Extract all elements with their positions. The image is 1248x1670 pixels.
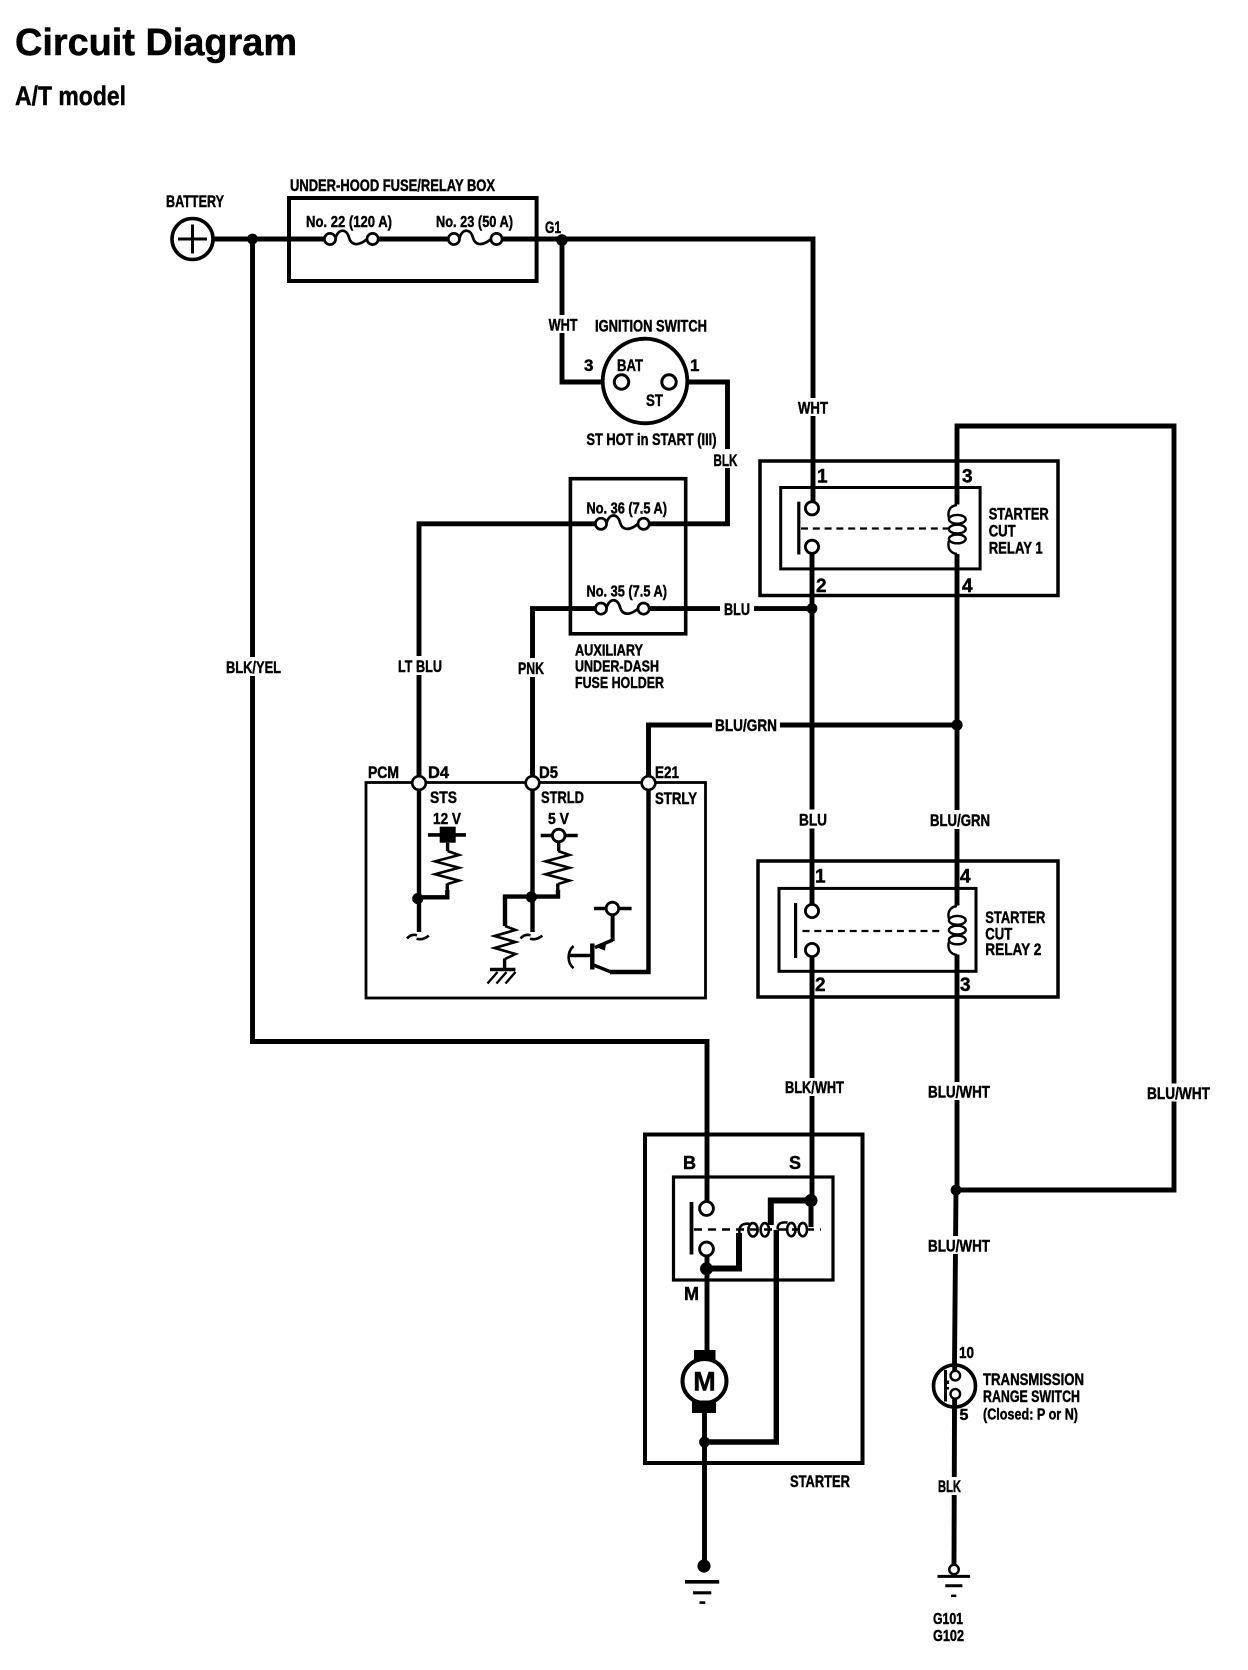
svg-text:3: 3 — [584, 356, 593, 375]
svg-text:STARTER: STARTER — [985, 909, 1045, 927]
svg-text:BLU/WHT: BLU/WHT — [1147, 1084, 1210, 1103]
svg-text:BLK/YEL: BLK/YEL — [226, 658, 281, 677]
svg-text:BLK: BLK — [714, 451, 738, 470]
svg-text:G101: G101 — [933, 1611, 963, 1628]
svg-text:A/T model: A/T model — [15, 81, 126, 111]
svg-text:M: M — [684, 1284, 699, 1304]
svg-text:10: 10 — [959, 1345, 974, 1362]
svg-text:Circuit Diagram: Circuit Diagram — [15, 22, 297, 64]
svg-text:4: 4 — [962, 576, 973, 597]
svg-text:BAT: BAT — [617, 356, 643, 375]
svg-text:RANGE SWITCH: RANGE SWITCH — [983, 1388, 1080, 1406]
svg-text:1: 1 — [817, 467, 828, 488]
svg-text:BLU/WHT: BLU/WHT — [928, 1083, 990, 1102]
svg-text:5: 5 — [960, 1407, 969, 1424]
svg-text:D4: D4 — [428, 763, 450, 782]
svg-text:No. 35 (7.5 A): No. 35 (7.5 A) — [587, 584, 668, 601]
svg-text:2: 2 — [816, 576, 827, 597]
svg-text:B: B — [683, 1153, 696, 1173]
svg-text:STS: STS — [430, 788, 457, 807]
svg-text:5 V: 5 V — [548, 811, 569, 828]
svg-text:CUT: CUT — [989, 523, 1016, 541]
svg-text:BATTERY: BATTERY — [166, 192, 224, 211]
svg-text:No. 23 (50 A): No. 23 (50 A) — [436, 214, 513, 231]
svg-text:FUSE HOLDER: FUSE HOLDER — [575, 675, 664, 692]
svg-text:No. 36 (7.5 A): No. 36 (7.5 A) — [587, 501, 668, 518]
svg-text:E21: E21 — [655, 763, 679, 782]
svg-text:S: S — [789, 1153, 801, 1173]
svg-text:ST: ST — [646, 391, 663, 410]
svg-text:BLK/WHT: BLK/WHT — [785, 1078, 844, 1097]
svg-text:LT BLU: LT BLU — [398, 657, 442, 676]
svg-text:UNDER-DASH: UNDER-DASH — [575, 659, 659, 676]
svg-text:D5: D5 — [539, 763, 558, 782]
svg-text:BLU: BLU — [724, 600, 750, 619]
svg-text:3: 3 — [960, 975, 971, 996]
svg-text:12 V: 12 V — [433, 811, 461, 828]
svg-text:4: 4 — [960, 867, 971, 888]
svg-text:PCM: PCM — [368, 763, 399, 782]
svg-text:TRANSMISSION: TRANSMISSION — [983, 1371, 1084, 1389]
svg-text:2: 2 — [815, 975, 826, 996]
svg-text:G102: G102 — [933, 1628, 964, 1645]
svg-text:1: 1 — [815, 867, 826, 888]
svg-text:ST HOT in START (III): ST HOT in START (III) — [587, 431, 717, 449]
svg-text:STARTER: STARTER — [989, 506, 1049, 524]
svg-text:(Closed: P or N): (Closed: P or N) — [983, 1407, 1078, 1424]
svg-text:G1: G1 — [545, 218, 561, 237]
svg-text:STRLY: STRLY — [655, 789, 698, 808]
svg-text:IGNITION SWITCH: IGNITION SWITCH — [595, 316, 707, 335]
svg-text:BLU/WHT: BLU/WHT — [928, 1237, 990, 1256]
svg-text:UNDER-HOOD FUSE/RELAY BOX: UNDER-HOOD FUSE/RELAY BOX — [290, 176, 496, 195]
svg-text:STARTER: STARTER — [790, 1473, 850, 1491]
svg-text:STRLD: STRLD — [541, 788, 584, 807]
svg-text:BLU/GRN: BLU/GRN — [930, 811, 990, 830]
svg-text:PNK: PNK — [518, 659, 545, 678]
svg-text:M: M — [693, 1367, 716, 1397]
svg-text:1: 1 — [690, 356, 699, 375]
svg-text:WHT: WHT — [549, 316, 578, 335]
svg-text:AUXILIARY: AUXILIARY — [575, 643, 643, 660]
svg-text:WHT: WHT — [798, 399, 828, 418]
svg-text:RELAY 2: RELAY 2 — [985, 941, 1041, 959]
svg-text:3: 3 — [962, 467, 973, 488]
svg-text:No. 22 (120 A): No. 22 (120 A) — [306, 214, 392, 231]
svg-text:BLU: BLU — [799, 811, 827, 830]
svg-text:BLK: BLK — [938, 1477, 961, 1496]
svg-text:BLU/GRN: BLU/GRN — [715, 716, 777, 735]
svg-text:RELAY 1: RELAY 1 — [989, 539, 1043, 557]
